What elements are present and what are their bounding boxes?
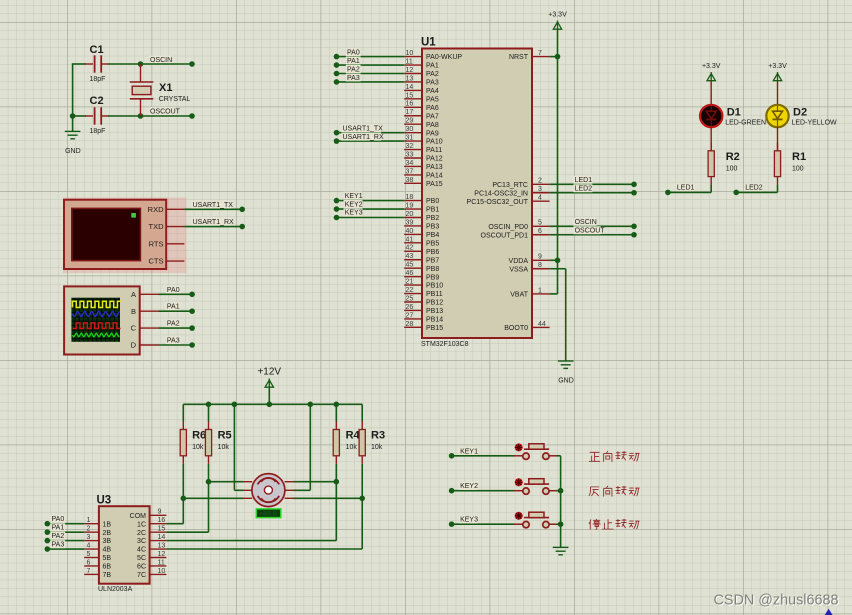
svg-text:+3.3V: +3.3V — [548, 12, 567, 19]
svg-text:2C: 2C — [137, 530, 146, 537]
svg-text:PA9: PA9 — [426, 130, 439, 137]
svg-text:PA3: PA3 — [52, 541, 65, 548]
pin U1.18 PB0 — [404, 200, 422, 202]
svg-text:13: 13 — [158, 542, 166, 549]
pin D1 anode — [710, 81, 712, 106]
terminal KEY3 (U1) — [334, 215, 340, 221]
svg-text:PA10: PA10 — [426, 139, 443, 146]
pin C1.2 — [101, 63, 109, 65]
pin U1.12 PA2 — [404, 73, 422, 75]
pin U3.14 3C — [150, 540, 167, 542]
pin U1.13 PA3 — [404, 81, 422, 83]
svg-text:PA3: PA3 — [426, 80, 439, 87]
pin U1.42 PB6 — [404, 250, 422, 252]
svg-text:TXD: TXD — [149, 222, 165, 231]
svg-text:OSCOUT: OSCOUT — [575, 228, 606, 235]
pin U3.2 2B — [84, 531, 99, 533]
terminal LED1 — [665, 190, 671, 196]
wire KEY1 to common — [557, 455, 561, 457]
svg-text:VSSA: VSSA — [509, 266, 528, 273]
wire USART1_RX — [184, 226, 242, 228]
pin U1.11 PA1 — [404, 64, 422, 66]
svg-text:5: 5 — [87, 551, 91, 558]
terminal PA0 (U1) — [334, 54, 340, 60]
power +12V — [257, 367, 281, 388]
net label PA3 (U1) — [346, 73, 361, 81]
wire C2 to OSCOUT — [108, 115, 141, 117]
capacitor C2 — [90, 95, 106, 135]
svg-text:PB7: PB7 — [426, 257, 439, 264]
pin U3.6 6B — [84, 565, 99, 567]
svg-text:13: 13 — [406, 75, 414, 82]
wire PA2 (U1) — [337, 73, 405, 75]
svg-text:41: 41 — [406, 236, 414, 243]
net label PA2 (U3) — [50, 532, 65, 540]
node OSCIN junction — [138, 61, 144, 67]
push button KEY3 switch — [514, 512, 558, 528]
svg-text:25: 25 — [406, 295, 414, 302]
svg-text:39: 39 — [406, 219, 414, 226]
svg-text:D2: D2 — [793, 107, 807, 119]
pin U1.5 OSCIN_PD0 — [532, 225, 550, 227]
svg-text:15: 15 — [158, 526, 166, 533]
terminal PA2 (scope) — [189, 325, 195, 331]
wire motor to net D — [293, 497, 362, 499]
wire PA3 (U3) — [47, 548, 84, 550]
virtual terminal VT1 — [64, 200, 166, 269]
svg-text:C1: C1 — [90, 44, 104, 56]
node OSCOUT junction — [138, 113, 144, 119]
pin U1.44 BOOT0 — [532, 326, 550, 328]
net label KEY3 (U1) — [344, 208, 363, 216]
svg-text:10k: 10k — [371, 444, 383, 451]
node NRST junction — [555, 54, 561, 60]
terminal KEY2 (U1) — [334, 206, 340, 212]
wire LED1 — [668, 191, 711, 193]
svg-text:6: 6 — [87, 559, 91, 566]
terminal USART1_RX (U1) — [334, 138, 340, 144]
node rail/motor-right-tap — [308, 402, 314, 408]
svg-text:PB2: PB2 — [426, 215, 439, 222]
svg-text:+3.3V: +3.3V — [768, 63, 787, 70]
wire C1 left — [73, 63, 86, 65]
wire scope PA2 — [159, 327, 193, 329]
wire VDDA — [550, 259, 558, 261]
node net D — [359, 496, 365, 502]
svg-text:5B: 5B — [103, 555, 112, 562]
svg-text:10k: 10k — [192, 444, 204, 451]
pin U1.43 PB7 — [404, 259, 422, 261]
svg-text:VBAT: VBAT — [510, 292, 528, 299]
svg-text:42: 42 — [406, 245, 414, 252]
wire VDDA to VBAT — [557, 260, 559, 294]
svg-text:PC13_RTC: PC13_RTC — [492, 182, 528, 189]
svg-text:COM: COM — [130, 513, 147, 520]
power +3.3V (NRST) — [548, 12, 567, 30]
svg-text:RXD: RXD — [148, 205, 164, 214]
svg-text:PA3: PA3 — [167, 338, 180, 345]
wire LED2 (U1) — [550, 192, 634, 194]
terminal KEY1 — [449, 453, 455, 459]
wire USART1_TX (U1) — [337, 132, 405, 134]
svg-text:PB12: PB12 — [426, 300, 443, 307]
pin U1.37 PA14 — [404, 174, 422, 176]
svg-text:BOOT0: BOOT0 — [504, 325, 528, 332]
wire C2 left — [73, 115, 86, 117]
svg-text:PA3: PA3 — [347, 75, 360, 82]
svg-text:PB14: PB14 — [426, 317, 443, 324]
node rail/motor-left-tap — [232, 402, 238, 408]
MCU U1 STM32F103C8 body — [422, 49, 532, 339]
svg-text:3B: 3B — [103, 538, 112, 545]
net label LED2 (U1) — [573, 184, 592, 192]
wire USART1_TX — [184, 208, 242, 210]
net label USART1_RX — [191, 218, 231, 226]
svg-text:10: 10 — [406, 50, 414, 57]
svg-text:31: 31 — [406, 135, 414, 142]
stepper motor M1 — [243, 474, 294, 507]
wire PA0 (U3) — [47, 523, 84, 525]
wire 3C — [166, 540, 336, 542]
svg-text:22: 22 — [406, 287, 414, 294]
annotation 停止转动 (stop rotate) — [589, 519, 640, 530]
svg-text:100: 100 — [726, 165, 738, 172]
svg-text:D: D — [131, 341, 137, 350]
svg-text:34: 34 — [406, 160, 414, 167]
svg-text:PA12: PA12 — [426, 156, 443, 163]
oscilloscope — [64, 286, 140, 354]
svg-text:OSCIN: OSCIN — [575, 219, 597, 226]
pin U1.28 PB15 — [404, 326, 422, 328]
wire NRST to +3.3V — [550, 56, 558, 58]
svg-text:A: A — [131, 290, 136, 299]
terminal PA2 (U1) — [334, 71, 340, 77]
wire rail to R6 — [182, 404, 184, 421]
capacitor C1 — [90, 44, 106, 83]
wire VSSA — [550, 268, 566, 270]
svg-text:46: 46 — [406, 270, 414, 277]
pin U3.9 COM — [150, 514, 167, 516]
pin U1.29 PA8 — [404, 123, 422, 125]
pin C1.1 — [85, 63, 93, 65]
wire OSCOUT (U1) — [550, 234, 634, 236]
pin U1.4 PC15-OSC32_OUT — [532, 200, 550, 202]
terminal USART1_TX (U1) — [334, 130, 340, 136]
svg-text:PA1: PA1 — [52, 525, 65, 532]
wire keys common to GND — [560, 456, 562, 548]
wire motor right tap — [293, 489, 310, 491]
pin U1.41 PB5 — [404, 242, 422, 244]
wire R1 to LED2 — [777, 185, 779, 193]
svg-text:PA13: PA13 — [426, 164, 443, 171]
svg-text:LED-GREEN: LED-GREEN — [725, 120, 766, 127]
terminal PA3 (U1) — [334, 79, 340, 85]
svg-text:PA2: PA2 — [167, 321, 180, 328]
pin U1.34 PA13 — [404, 165, 422, 167]
svg-text:PB3: PB3 — [426, 224, 439, 231]
pin C2.1 — [85, 115, 93, 117]
svg-text:U1: U1 — [421, 37, 436, 49]
svg-text:16: 16 — [406, 101, 414, 108]
pin scope B — [140, 310, 159, 312]
pin U3.4 4B — [84, 548, 99, 550]
svg-text:R5: R5 — [218, 430, 232, 442]
svg-text:LED1: LED1 — [677, 184, 695, 191]
svg-text:+3.3V: +3.3V — [702, 63, 721, 70]
pin U1.30 PA9 — [404, 132, 422, 134]
net label LED1 — [676, 183, 695, 191]
wire R4 to net C — [335, 464, 337, 482]
net label OSCIN (U1) — [573, 218, 596, 226]
svg-text:4C: 4C — [137, 547, 146, 554]
svg-text:20: 20 — [406, 211, 414, 218]
wire PA1 (U3) — [47, 531, 84, 533]
svg-text:LED1: LED1 — [575, 177, 593, 184]
svg-text:7C: 7C — [137, 572, 146, 579]
wire LED2 — [736, 191, 777, 193]
svg-text:5C: 5C — [137, 555, 146, 562]
power +3.3V (D1) — [702, 63, 721, 81]
svg-text:U3: U3 — [97, 495, 112, 507]
svg-text:1: 1 — [538, 287, 542, 294]
wire PA1 (U1) — [337, 64, 405, 66]
svg-text:NRST: NRST — [509, 54, 529, 61]
svg-text:7B: 7B — [103, 572, 112, 579]
node rail/R4 — [334, 402, 340, 408]
push button KEY2 switch — [514, 478, 558, 494]
wire KEY3 (U1) — [337, 217, 405, 219]
node KEY2 common — [558, 488, 564, 494]
svg-text:KEY2: KEY2 — [345, 201, 363, 208]
svg-text:X1: X1 — [159, 82, 172, 94]
pin U3.1 1B — [84, 523, 99, 525]
pin D1 cathode — [710, 127, 712, 151]
svg-text:GND: GND — [65, 148, 81, 155]
wire scope PA3 — [159, 344, 193, 346]
wire rail to R4 — [335, 404, 337, 421]
terminal LED1 (U1) — [631, 182, 637, 188]
ground GND (U1 VSSA) — [558, 361, 574, 385]
net label PA1 (U3) — [50, 523, 65, 531]
net label LED2 — [744, 183, 763, 191]
svg-text:PC14-OSC32_IN: PC14-OSC32_IN — [474, 190, 528, 197]
wire VSSA to GND — [565, 269, 567, 361]
pin VT RXD — [166, 208, 184, 210]
terminal OSCOUT — [189, 113, 195, 119]
pin U1.31 PA10 — [404, 140, 422, 142]
wire LED1 (U1) — [550, 183, 634, 185]
svg-text:PA2: PA2 — [426, 71, 439, 78]
node rail/R5 — [206, 402, 212, 408]
pin U1.19 PB1 — [404, 208, 422, 210]
net label PA2 (U1) — [346, 65, 361, 73]
wire PA0 (U1) — [337, 56, 405, 58]
svg-text:CRYSTAL: CRYSTAL — [159, 96, 191, 103]
svg-text:PA6: PA6 — [426, 105, 439, 112]
wire OSCIN — [141, 63, 193, 65]
terminal USART1_RX — [239, 224, 245, 230]
node KEY3 common — [558, 521, 564, 527]
wire KEY2 — [452, 490, 515, 492]
svg-text:18pF: 18pF — [90, 128, 106, 135]
ground GND (crystal) — [65, 131, 81, 155]
wire 2C — [166, 531, 208, 533]
net label PA0 (U1) — [346, 48, 361, 56]
wire USART1_RX (U1) — [337, 140, 405, 142]
pin U1.33 PA12 — [404, 157, 422, 159]
svg-text:OSCIN_PD0: OSCIN_PD0 — [488, 224, 528, 231]
svg-text:3: 3 — [538, 186, 542, 193]
wire KEY1 — [452, 455, 515, 457]
wire 1C — [166, 523, 183, 525]
svg-text:6C: 6C — [137, 564, 146, 571]
VT green cursor block — [131, 213, 136, 218]
pin U3.7 7B — [84, 573, 99, 575]
pin D2 cathode — [777, 127, 779, 151]
svg-text:PA11: PA11 — [426, 147, 442, 154]
net label OSCOUT — [149, 107, 176, 115]
pin VT CTS — [166, 260, 184, 262]
svg-text:VDDA: VDDA — [509, 258, 529, 265]
net label PA3 (scope) — [166, 336, 181, 344]
terminal USART1_TX — [239, 207, 245, 213]
pin U1.27 PB14 — [404, 318, 422, 320]
svg-text:LED-YELLOW: LED-YELLOW — [792, 120, 838, 127]
svg-text:R6: R6 — [192, 430, 206, 442]
net label PA0 (scope) — [166, 286, 181, 294]
resistor R3 10k — [359, 422, 385, 464]
resistor R5 10k — [205, 422, 231, 464]
terminal KEY3 — [449, 521, 455, 527]
pin U1.8 VSSA — [532, 268, 550, 270]
wire +12V to motor left tap — [233, 404, 235, 490]
pin U1.21 PB10 — [404, 284, 422, 286]
terminal PA1 (U3) — [45, 529, 51, 535]
wire 4C — [166, 548, 362, 550]
svg-text:PA5: PA5 — [426, 96, 439, 103]
annotation 正向转动 (forward rotate) — [589, 451, 640, 462]
svg-text:ULN2003A: ULN2003A — [98, 586, 133, 593]
pin U3.10 7C — [150, 573, 167, 575]
svg-text:12: 12 — [158, 551, 166, 558]
svg-text:R1: R1 — [792, 151, 806, 163]
net label KEY2 — [459, 482, 478, 490]
wire VBAT — [550, 293, 558, 295]
net label USART1_RX (U1) — [341, 133, 381, 141]
svg-text:3C: 3C — [137, 538, 146, 545]
net label PA1 (scope) — [166, 302, 181, 310]
svg-text:11: 11 — [158, 559, 165, 566]
svg-text:+12V: +12V — [257, 367, 281, 378]
net label LED1 (U1) — [573, 176, 592, 184]
node +12V rail — [267, 402, 273, 408]
pin C2.2 — [101, 115, 109, 117]
svg-text:PC15-OSC32_OUT: PC15-OSC32_OUT — [467, 199, 529, 206]
svg-text:43: 43 — [406, 253, 414, 260]
pin U1.15 PA5 — [404, 98, 422, 100]
wire net C down to 3C — [335, 482, 337, 541]
node net B — [206, 479, 212, 485]
svg-text:KEY2: KEY2 — [460, 483, 478, 490]
pin U1.2 PC13_RTC — [532, 183, 550, 185]
watermark CSDN — [714, 593, 840, 610]
resistor R1 100 — [774, 143, 806, 185]
pin U1.17 PA7 — [404, 115, 422, 117]
svg-text:17: 17 — [406, 109, 414, 116]
resistor R4 10k — [333, 422, 360, 464]
svg-text:18pF: 18pF — [90, 76, 106, 83]
svg-text:OSCOUT_PD1: OSCOUT_PD1 — [481, 232, 529, 239]
svg-text:B: B — [131, 307, 136, 316]
terminal PA0 (U3) — [45, 521, 51, 527]
svg-text:C2: C2 — [90, 95, 104, 107]
wire KEY1 (U1) — [337, 200, 405, 202]
pin VT RTS — [166, 243, 184, 245]
wire C1 to OSCIN — [108, 63, 141, 65]
svg-text:PB10: PB10 — [426, 283, 443, 290]
pin U3.16 1C — [150, 523, 167, 525]
svg-text:PB6: PB6 — [426, 249, 439, 256]
wire motor left tap — [234, 489, 243, 491]
pin scope A — [140, 293, 159, 295]
terminal PA3 (scope) — [189, 342, 195, 348]
pin U1.26 PB13 — [404, 309, 422, 311]
pin U1.22 PB11 — [404, 293, 422, 295]
svg-text:16: 16 — [158, 517, 166, 524]
pin U1.39 PB3 — [404, 225, 422, 227]
svg-text:45: 45 — [406, 262, 414, 269]
wire +12V drop — [268, 388, 270, 405]
pin U3.12 5C — [150, 557, 167, 559]
pin U1.25 PB12 — [404, 301, 422, 303]
annotation 反向转动 (reverse rotate) — [589, 486, 640, 497]
node C2/GND junction — [70, 113, 76, 119]
svg-text:LED2: LED2 — [575, 186, 593, 193]
svg-text:5: 5 — [538, 220, 542, 227]
net label OSCOUT (U1) — [573, 226, 600, 234]
wire R5 to net B — [208, 464, 210, 482]
wire PA2 (U3) — [47, 540, 84, 542]
wire rail to R5 — [208, 404, 210, 421]
wire R3 to net D — [361, 464, 363, 499]
svg-text:OSCIN: OSCIN — [150, 57, 172, 64]
svg-text:OSCOUT: OSCOUT — [150, 109, 181, 116]
wire +12V to motor right tap — [309, 404, 311, 490]
svg-text:4: 4 — [538, 195, 542, 202]
terminal PA1 (U1) — [334, 62, 340, 68]
svg-text:KEY3: KEY3 — [345, 210, 363, 217]
svg-text:10k: 10k — [346, 444, 358, 451]
pin U1.45 PB8 — [404, 267, 422, 269]
wire PA3 (U1) — [337, 81, 405, 83]
net label PA0 (U3) — [50, 515, 65, 523]
terminal PA0 (scope) — [189, 292, 195, 298]
crystal X1 — [130, 64, 191, 116]
svg-text:33: 33 — [406, 151, 414, 158]
svg-text:CSDN @zhusl6688: CSDN @zhusl6688 — [714, 593, 839, 609]
pin scope D — [140, 344, 159, 346]
svg-text:PB1: PB1 — [426, 207, 439, 214]
terminal LED2 — [733, 190, 739, 196]
wire motor to net C — [293, 481, 336, 483]
svg-text:PB5: PB5 — [426, 240, 439, 247]
pin U3.5 5B — [84, 557, 99, 559]
svg-text:RTS: RTS — [149, 239, 164, 248]
wire OSCOUT — [141, 115, 193, 117]
svg-text:14: 14 — [158, 534, 166, 541]
svg-text:3: 3 — [87, 534, 91, 541]
terminal PA3 (U3) — [45, 546, 51, 552]
